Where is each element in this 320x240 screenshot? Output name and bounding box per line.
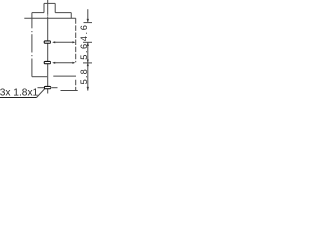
arrow right at slot1 line end (72, 41, 75, 43)
slot 1 (1.8x1) (44, 40, 51, 43)
outer dim line lower chain (87, 42, 89, 90)
background (0, 0, 92, 100)
body top line (24, 17, 75, 19)
left centerline dot 1 (31, 31, 33, 32)
slot1 dimension line (54, 41, 75, 43)
left corner horizontal (32, 76, 47, 78)
inner vertical extension line upper (75, 18, 77, 62)
arrow right at slot2 line end (72, 62, 75, 64)
slot 2 (1.8x1) (44, 61, 51, 64)
center vertical axis dot (47, 14, 49, 17)
left corner vertical (31, 59, 33, 77)
step left + left leg (31, 13, 33, 29)
svg-text:4.6: 4.6 (79, 23, 89, 41)
arrow down at y=90.3 outer dim (87, 87, 89, 91)
inner vertical extension line lower (75, 80, 77, 91)
svg-text:5.6: 5.6 (79, 42, 89, 59)
svg-text:5.8: 5.8 (79, 68, 89, 84)
arrow left at slot2 line start (52, 62, 55, 64)
slot3 right line (52, 87, 58, 89)
chained arrowheads at y=62.8 outer dim (87, 60, 89, 63)
top extension line y=22.6 (84, 22, 93, 24)
left centerline dash (31, 34, 33, 52)
underline of callout text (0, 97, 37, 99)
left centerline dot 2 (31, 55, 33, 56)
shoulder left (32, 12, 44, 14)
button top (44, 2, 55, 4)
slot 3 (1.8x1) (44, 86, 51, 89)
right segment of cross line (53, 75, 76, 77)
arrow left at slot1 line start (52, 41, 55, 43)
arrow up at y=42.3 outer dim (87, 42, 89, 46)
arrow down at y=22.6 outer dim (87, 19, 89, 23)
extension line segment at y=62.9 right of text (83, 62, 92, 64)
outer dim line upper tail (87, 9, 89, 22)
slot3 left line (38, 87, 45, 89)
shoulder right (55, 12, 71, 14)
bottom right horizontal (61, 90, 78, 92)
slot2 dimension line (54, 62, 75, 64)
svg-text:3x 1.8x1: 3x 1.8x1 (0, 87, 39, 98)
leader line to slot3 (37, 89, 45, 98)
step right (70, 13, 72, 19)
button left edge (43, 3, 45, 12)
button right edge (54, 3, 56, 12)
center vertical axis seg2 (47, 17, 49, 94)
center vertical axis seg1 (47, 0, 49, 15)
extension line segment at y=42.3 right of text (83, 41, 92, 43)
